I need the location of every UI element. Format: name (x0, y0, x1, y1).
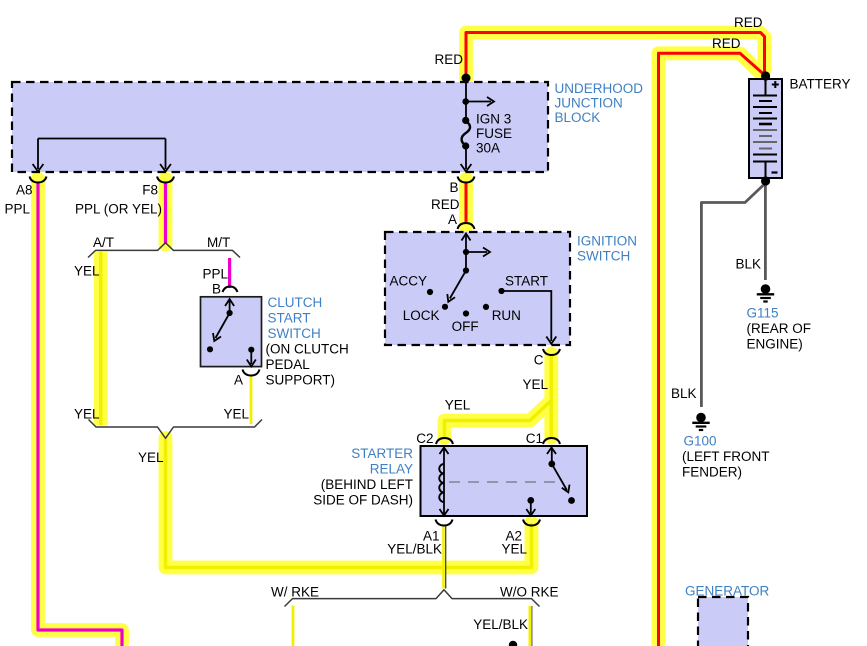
wire RED battery to junction block (core) (466, 33, 765, 81)
svg-text:UNDERHOOD: UNDERHOOD (555, 81, 644, 96)
svg-text:RED: RED (431, 197, 460, 212)
wire YEL ignition C to relay C1 (highlight) (544, 354, 558, 438)
wire BLK battery to G115 (764, 184, 767, 280)
connector A (ignition switch) (458, 223, 475, 229)
svg-text:START: START (505, 274, 548, 289)
relay armature (552, 464, 567, 490)
arrow down at C exit (546, 337, 556, 344)
battery plates (753, 95, 777, 97)
wire YEL/BLK relay A1 down (black part) (445, 525, 447, 589)
wire PPL A8 to bottom (core) (38, 184, 122, 646)
arrow down to F8 (160, 164, 171, 172)
svg-text:OFF: OFF (452, 319, 479, 334)
svg-text:SUPPORT): SUPPORT) (266, 373, 336, 388)
wire YEL A/T branch (highlight) (94, 252, 108, 426)
arrow up at A entry (465, 235, 467, 251)
connector A (clutch switch) (243, 370, 260, 376)
relay coil bumps (439, 464, 444, 502)
contact ACCY (427, 289, 433, 295)
svg-text:B: B (449, 180, 458, 195)
svg-text:JUNCTION: JUNCTION (555, 96, 623, 111)
ground G100 symbol (692, 413, 709, 430)
svg-text:YEL/BLK: YEL/BLK (387, 542, 442, 557)
wire YEL/BLK relay A1 down (yellow part) (442, 525, 445, 589)
fuse IGN 3 element (462, 121, 470, 146)
clutch switch arm (216, 313, 230, 338)
connector B (clutch switch) (223, 287, 238, 293)
relay coil line C2-A1 (443, 449, 445, 514)
rotor arm to LOCK (450, 271, 466, 299)
relay C1 dot (548, 461, 555, 468)
svg-text:RED: RED (434, 52, 463, 67)
svg-text:YEL/BLK: YEL/BLK (473, 617, 528, 632)
svg-text:PPL: PPL (5, 202, 31, 217)
connector C (ignition switch) (543, 349, 560, 355)
connector A8 (30, 177, 47, 183)
svg-text:LOCK: LOCK (403, 308, 440, 323)
wire PPL F8 (core) (164, 184, 167, 245)
svg-text:BATTERY: BATTERY (790, 77, 851, 92)
arrow down fuse output (461, 164, 472, 172)
connector B (junction block) (458, 177, 475, 183)
svg-text:RUN: RUN (492, 308, 521, 323)
wire YEL/BLK W/O RKE branch (black part) (531, 606, 533, 646)
svg-text:(REAR OF: (REAR OF (747, 321, 812, 336)
contact RUN (483, 304, 489, 310)
relay dashed divider (449, 481, 557, 483)
svg-text:B: B (212, 282, 221, 297)
bottom cut-off junction dot (509, 641, 517, 646)
clutch contact A dot (248, 347, 254, 353)
svg-text:PEDAL: PEDAL (266, 357, 311, 372)
battery negative terminal dot (761, 176, 770, 185)
relay armature target dot (568, 497, 575, 504)
battery bottom stem (765, 162, 767, 178)
svg-text:RED: RED (712, 36, 741, 51)
wire YEL A/T branch (core) (99, 252, 103, 426)
line dot1 to dot2 (465, 252, 467, 271)
svg-text:GENERATOR: GENERATOR (685, 584, 770, 599)
wire RED B-A connector (highlight) (459, 179, 473, 227)
arrow down to A8 (33, 164, 44, 172)
svg-text:A: A (448, 212, 457, 227)
contact LOCK (442, 304, 448, 310)
svg-text:A/T: A/T (93, 235, 114, 250)
svg-text:SIDE OF DASH): SIDE OF DASH) (313, 493, 413, 508)
svg-text:BLK: BLK (671, 386, 697, 401)
generator box (698, 597, 748, 646)
brace A/T - M/T split (88, 243, 240, 258)
svg-text:(LEFT FRONT: (LEFT FRONT (682, 449, 770, 464)
connector A1 (relay) (436, 520, 453, 526)
arrow down at A2 (526, 509, 535, 516)
svg-text:FUSE: FUSE (476, 126, 512, 141)
fuse branch dot (462, 98, 469, 105)
wire YEL clutch A to merge (thin) (250, 375, 253, 424)
svg-text:RED: RED (734, 15, 763, 30)
fuse branch arrow right (466, 101, 491, 103)
svg-text:A8: A8 (16, 183, 33, 198)
svg-text:SWITCH: SWITCH (268, 326, 321, 341)
svg-text:G115: G115 (747, 306, 779, 321)
svg-text:YEL: YEL (74, 264, 100, 279)
svg-text:(ON CLUTCH: (ON CLUTCH (266, 342, 349, 357)
svg-text:YEL: YEL (223, 407, 249, 422)
wire PPL F8 (highlight) (159, 179, 173, 245)
svg-text:F8: F8 (142, 183, 158, 198)
svg-text:YEL: YEL (138, 450, 164, 465)
ignition switch box (385, 232, 570, 345)
svg-text:PPL (OR YEL): PPL (OR YEL) (75, 202, 162, 217)
junction dot at RED feed (462, 74, 471, 83)
svg-text:C1: C1 (526, 431, 543, 446)
arrow up at C2 (440, 448, 449, 455)
relay A2 contact line (530, 500, 532, 513)
connector F8 (157, 177, 174, 183)
svg-text:W/O RKE: W/O RKE (500, 585, 559, 600)
svg-text:YEL: YEL (74, 407, 100, 422)
wire YEL merge output to relay A2 (core) (166, 439, 532, 568)
fuse top dot (462, 117, 469, 124)
battery box (749, 79, 782, 178)
battery top stem (765, 80, 767, 96)
brace W/RKE - W/O RKE split (285, 590, 540, 607)
ignition feed dot2 (463, 267, 469, 273)
fuse feed line (465, 80, 467, 118)
svg-text:M/T: M/T (207, 235, 230, 250)
START contact wire to C (502, 291, 552, 341)
wire PPL A8 (highlight) (38, 179, 122, 646)
junction block internal bus A8-F8 (38, 138, 166, 140)
svg-text:START: START (268, 311, 311, 326)
relay A2 dot (527, 497, 534, 504)
svg-text:BLK: BLK (736, 257, 762, 272)
svg-text:FENDER): FENDER) (682, 465, 742, 480)
svg-text:CLUTCH: CLUTCH (268, 295, 323, 310)
underhood junction block box (12, 82, 548, 172)
contact START (498, 288, 504, 294)
connector C2 (relay) (436, 438, 453, 444)
svg-text:ACCY: ACCY (390, 274, 428, 289)
wire BLK battery to G100 (701, 185, 763, 407)
svg-text:SWITCH: SWITCH (577, 248, 630, 263)
battery minus sign (772, 171, 778, 173)
battery positive terminal dot (761, 71, 770, 80)
fuse output line (465, 146, 467, 169)
wire YEL merge output to relay A2 (highlight) (166, 438, 532, 568)
svg-text:RELAY: RELAY (370, 462, 413, 477)
wire PPL M/T to clutch B (core) (228, 258, 231, 288)
svg-text:W/ RKE: W/ RKE (271, 585, 319, 600)
contact OFF (463, 310, 469, 316)
feed branch arrow right (466, 251, 487, 253)
clutch switch pivot dot (227, 310, 233, 316)
svg-text:30A: 30A (476, 141, 500, 156)
clutch start switch box (201, 297, 262, 367)
brace merge A/T+clutch (89, 420, 263, 439)
svg-text:G100: G100 (684, 434, 717, 449)
svg-text:IGN 3: IGN 3 (476, 112, 511, 127)
wire RED battery down right side (highlight) (659, 53, 763, 646)
starter relay box (421, 446, 588, 516)
svg-text:YEL: YEL (523, 377, 549, 392)
svg-text:PPL: PPL (203, 267, 229, 282)
ground G115 symbol (757, 285, 774, 302)
battery plus sign (772, 81, 779, 88)
arrow up at B entry (229, 301, 231, 313)
svg-text:(BEHIND LEFT: (BEHIND LEFT (321, 477, 413, 492)
arrow down at A1 (440, 509, 449, 516)
svg-text:C: C (534, 353, 544, 368)
arrow down at A exit (247, 360, 256, 367)
wire YEL/BLK W/O RKE branch (yellow part) (528, 606, 531, 646)
svg-text:ENGINE): ENGINE) (747, 337, 803, 352)
wire RED battery down right side (core) (659, 53, 765, 646)
arrow up at C1 (547, 448, 556, 455)
clutch contact lower-left dot (207, 346, 213, 352)
wire YEL branch to relay C2 (highlight) (445, 401, 552, 439)
svg-text:C2: C2 (416, 431, 433, 446)
wire YEL ignition C to relay C1 (core) (550, 354, 554, 438)
wire RED B-A connector (core) (465, 184, 468, 223)
svg-text:A: A (234, 373, 243, 388)
wire YEL W/RKE branch (thin) (292, 606, 295, 646)
line contact to A (250, 350, 252, 364)
svg-text:YEL: YEL (445, 398, 471, 413)
ignition feed dot1 (463, 249, 469, 255)
wire YEL branch to relay C2 (core) (445, 401, 552, 439)
relay C1 line (551, 449, 553, 464)
connector A2 (relay) (523, 520, 540, 526)
wire RED battery to junction block (highlight) (466, 33, 765, 84)
connector C1 (relay) (543, 438, 560, 444)
svg-text:IGNITION: IGNITION (577, 234, 637, 249)
fuse bottom dot (462, 142, 469, 149)
svg-text:STARTER: STARTER (351, 446, 413, 461)
svg-text:YEL: YEL (501, 542, 527, 557)
svg-text:BLOCK: BLOCK (555, 110, 601, 125)
